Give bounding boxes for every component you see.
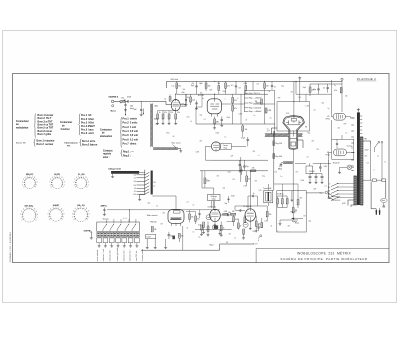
attenuator switch arm 4 xyxy=(125,224,129,231)
label V2 xyxy=(200,93,202,95)
wire V4 cath xyxy=(249,221,251,224)
wire v317 xyxy=(308,163,310,166)
ground R8 xyxy=(168,122,171,125)
connector pin label 3 xyxy=(109,249,112,261)
svg-text:Born.2 TH.T: Born.2 TH.T xyxy=(38,118,52,120)
svg-text:1M 1M 0,5: 1M 1M 0,5 xyxy=(277,194,284,196)
svg-text:Transfo HF: Transfo HF xyxy=(263,187,271,190)
wire v274 topbox xyxy=(274,90,276,102)
node bus 296 xyxy=(295,81,296,82)
title text line 2 xyxy=(280,256,367,261)
bottom bus verticals xyxy=(146,239,167,249)
wire R1 to C1 xyxy=(125,100,128,102)
ground in sweep box xyxy=(290,191,293,202)
label X1 xyxy=(263,187,271,190)
rail x274 xyxy=(274,90,276,134)
mid bus y124 xyxy=(196,123,275,125)
tube V1 electrodes xyxy=(173,100,179,111)
wiper contact b xyxy=(328,196,333,200)
svg-text:2kV: 2kV xyxy=(365,156,368,158)
pin list information xyxy=(82,141,98,147)
band switch bottom xyxy=(138,195,145,201)
svg-text:Bornier 3B: Bornier 3B xyxy=(16,142,26,144)
resistor R51 xyxy=(273,154,282,159)
wire funnel left xyxy=(272,128,278,134)
bottom bus y250 xyxy=(141,249,220,251)
capacitor C14 xyxy=(168,232,171,239)
wire top right h2 xyxy=(296,93,332,95)
svg-text:3,3k: 3,3k xyxy=(198,224,201,226)
svg-text:50k: 50k xyxy=(183,89,186,91)
svg-text:Réglage: Réglage xyxy=(211,196,217,198)
resistor R32 xyxy=(281,196,283,208)
svg-text:1k: 1k xyxy=(159,112,161,114)
wire V3 cath gnd xyxy=(214,222,217,227)
selector contact 220V xyxy=(331,194,354,198)
svg-text:47k: 47k xyxy=(244,216,247,218)
svg-text:1: 1 xyxy=(64,184,65,186)
label R28 xyxy=(258,223,261,225)
svg-text:Cout 1: Cout 1 xyxy=(146,236,151,239)
label EA50 xyxy=(278,166,282,170)
table tap text 1 xyxy=(249,93,260,95)
label selector 110 xyxy=(328,187,331,189)
ground R7 xyxy=(162,122,165,125)
svg-text:repérés: repérés xyxy=(103,153,112,156)
connector pin boxes xyxy=(97,238,139,245)
label V1 type xyxy=(182,106,186,108)
label connecteur du secteur xyxy=(60,121,72,131)
table tap line 3 xyxy=(245,102,249,104)
capacitor C17 xyxy=(236,209,246,211)
svg-text:3,4: 3,4 xyxy=(134,181,136,183)
svg-text:0: 0 xyxy=(64,182,65,184)
svg-text:1n: 1n xyxy=(281,176,283,178)
svg-text:vers C.R. dir.: vers C.R. dir. xyxy=(135,250,138,261)
svg-text:Rep.100k: Rep.100k xyxy=(276,156,283,158)
screen box around tube xyxy=(277,102,310,131)
label equipement xyxy=(16,142,26,144)
label 50ohm xyxy=(130,106,134,110)
connector pin label 7 xyxy=(135,250,138,261)
label 2nd bus xyxy=(181,92,185,94)
funnel neck rungs xyxy=(290,133,297,138)
attenuator switch arm 2 xyxy=(110,224,114,231)
node bus a xyxy=(214,81,215,82)
table tap text 4 xyxy=(249,108,262,110)
wire cluster top xyxy=(158,111,176,115)
svg-text:Born.2 secteur: Born.2 secteur xyxy=(37,143,54,146)
svg-text:8,4: 8,4 xyxy=(134,185,136,187)
label R46 xyxy=(197,219,200,221)
tube V2 electrodes xyxy=(210,99,219,117)
svg-text:25k: 25k xyxy=(253,151,256,153)
funnel tube envelope xyxy=(283,116,304,150)
wire v331 down xyxy=(331,120,333,139)
label R22 xyxy=(252,167,255,169)
node V4 anode xyxy=(250,170,251,171)
svg-text:EY51: EY51 xyxy=(326,119,330,121)
capacitor C27 xyxy=(198,210,200,218)
wire h208 right xyxy=(280,217,298,221)
attenuator screen box xyxy=(97,222,140,231)
svg-text:Pos.5 0,2 volt: Pos.5 0,2 volt xyxy=(123,134,139,137)
label R12 xyxy=(234,100,237,102)
wire bus drop 296 xyxy=(295,81,297,94)
wire tube window xyxy=(253,90,265,92)
transformer top ground xyxy=(357,108,360,112)
label R27 xyxy=(244,216,247,218)
band switch bus xyxy=(144,170,146,195)
label R11 xyxy=(216,122,219,124)
connector pin label 2 xyxy=(102,249,105,262)
svg-text:8: 8 xyxy=(61,208,62,210)
resistor R25 xyxy=(220,221,223,236)
svg-text:fonction: fonction xyxy=(60,128,70,131)
transformer right ticks xyxy=(360,116,362,134)
selector contact 130V xyxy=(331,190,354,194)
svg-text:16µF: 16µF xyxy=(199,83,203,85)
svg-text:1n: 1n xyxy=(202,98,204,100)
label R30 xyxy=(269,214,272,216)
svg-text:Born.3 ai THT: Born.3 ai THT xyxy=(38,121,54,123)
svg-text:8µF: 8µF xyxy=(191,85,194,87)
label R7 xyxy=(164,112,167,114)
wire osc v248 xyxy=(247,196,249,209)
svg-text:27k: 27k xyxy=(291,92,294,94)
connector pin label 6 xyxy=(129,249,132,261)
svg-text:Connecteur: Connecteur xyxy=(16,120,29,123)
wire bus drop 253 xyxy=(252,81,254,90)
resistor R5 xyxy=(264,81,266,94)
svg-text:V6: V6 xyxy=(305,127,307,129)
drawing frame border xyxy=(13,74,390,263)
svg-text:Rep. —400mV: Rep. —400mV xyxy=(249,103,262,105)
label C2 xyxy=(133,109,137,111)
box edge left osc xyxy=(240,157,242,182)
svg-text:wobulateur: wobulateur xyxy=(16,126,28,129)
wire mains pin2 xyxy=(379,208,381,210)
svg-text:SUITE: SUITE xyxy=(54,174,60,176)
svg-text:Contacteur: Contacteur xyxy=(100,128,112,131)
svg-text:Rég.470k: Rég.470k xyxy=(276,143,283,145)
transformer taps xyxy=(351,118,354,171)
svg-text:10k: 10k xyxy=(258,223,261,225)
svg-text:3: 3 xyxy=(21,211,22,213)
rotary dial S3 xyxy=(74,174,89,188)
svg-text:Born.7 grille: Born.7 grille xyxy=(38,134,52,136)
svg-text:Pos.1 entrée: Pos.1 entrée xyxy=(123,117,138,120)
svg-text:1 – 4: 1 – 4 xyxy=(123,218,127,220)
resistor R31 xyxy=(277,196,279,208)
cable tail arrow xyxy=(173,145,177,148)
label rung 7 xyxy=(133,194,136,196)
tube V8 hatched grid xyxy=(170,218,181,220)
svg-text:SCHÉMA N° 1223 — Éd. MÉTRIX: SCHÉMA N° 1223 — Éd. MÉTRIX xyxy=(9,231,12,262)
selector contact 245V xyxy=(331,197,354,201)
svg-text:THT: THT xyxy=(364,139,367,141)
svg-text:sortie wobulat.: sortie wobulat. xyxy=(96,249,99,261)
label wobulateur tube xyxy=(147,215,158,217)
wire right mid h184 xyxy=(274,183,298,185)
svg-text:50k: 50k xyxy=(232,211,235,213)
svg-text:0: 0 xyxy=(329,184,330,186)
label R10 xyxy=(192,100,195,102)
wiper rail a xyxy=(331,196,340,198)
label V2 type xyxy=(198,95,204,97)
svg-text:WOBULOSCOPE 231 MÉTRIX: WOBULOSCOPE 231 MÉTRIX xyxy=(297,250,351,255)
resistor R15 xyxy=(265,108,267,113)
svg-text:0,1: 0,1 xyxy=(307,157,309,159)
svg-text:Contacts: Contacts xyxy=(103,150,113,153)
svg-text:8µF: 8µF xyxy=(314,189,317,191)
label selector 0 xyxy=(329,184,330,186)
wire V3 top node xyxy=(202,182,214,188)
ground R9 xyxy=(174,122,177,125)
rotary dial S1 xyxy=(22,173,37,188)
wire V1 grid xyxy=(152,101,172,104)
resistor R14 xyxy=(261,99,263,104)
fuse F1 xyxy=(363,179,382,182)
svg-text:PL. 250: PL. 250 xyxy=(78,174,85,176)
svg-text:attenuat. 0,1 v: attenuat. 0,1 v xyxy=(129,249,132,261)
svg-text:0,4: 0,4 xyxy=(134,175,136,177)
label C18 xyxy=(241,138,245,140)
wire C1 to shielded cable xyxy=(130,100,152,102)
label R2 xyxy=(178,85,181,87)
svg-text:4: 4 xyxy=(52,177,53,179)
resistor R44 xyxy=(273,141,275,146)
heater rail a xyxy=(370,145,372,181)
table tap line 4 xyxy=(245,107,249,109)
ground lamp xyxy=(338,171,341,174)
ground C5 xyxy=(195,107,198,110)
wire V1 anode xyxy=(175,94,177,99)
capacitor C16 xyxy=(220,214,232,216)
transformer primary winding xyxy=(354,176,357,205)
svg-text:2k: 2k xyxy=(246,120,248,122)
svg-text:1: 1 xyxy=(50,184,51,186)
resistor R26 xyxy=(233,215,235,226)
label R15 xyxy=(268,110,272,112)
resistor R17 xyxy=(309,84,311,96)
ground V4 xyxy=(249,225,252,230)
svg-text:47: 47 xyxy=(134,191,136,193)
tiny labels top cluster xyxy=(187,97,204,100)
svg-text:attenuation: attenuation xyxy=(100,135,113,138)
pin list equipement xyxy=(37,140,55,147)
label C25 xyxy=(253,193,255,195)
label R25 xyxy=(223,228,225,230)
label chassis depart xyxy=(103,150,113,159)
capacitor C23 top xyxy=(271,81,273,90)
pilot lamp LP1 xyxy=(347,165,352,170)
svg-text:1k: 1k xyxy=(235,238,237,240)
wire right v306 xyxy=(305,94,307,101)
tube V7 electrodes xyxy=(337,150,343,155)
resistor R49 xyxy=(204,171,206,188)
label R4 xyxy=(227,85,230,87)
svg-text:Rep. visser: Rep. visser xyxy=(172,143,181,145)
svg-text:PLANCHE 2: PLANCHE 2 xyxy=(357,77,376,81)
svg-text:Pos.4 0,5 volt: Pos.4 0,5 volt xyxy=(123,130,139,133)
table tap line 2 xyxy=(245,97,249,99)
brace chassis xyxy=(121,150,123,157)
svg-text:25µ: 25µ xyxy=(246,166,249,168)
svg-text:Syncro: Syncro xyxy=(292,221,297,223)
label R5 xyxy=(266,85,269,87)
label rung 5 xyxy=(134,188,136,190)
label cable top xyxy=(154,106,158,108)
wire mains down a xyxy=(371,182,376,211)
wire sweep box top xyxy=(306,192,324,194)
wire h221 osc xyxy=(227,220,234,222)
funnel tube plates xyxy=(286,116,301,125)
grid bus y104 xyxy=(221,103,274,105)
label R21 xyxy=(181,236,184,238)
resistor R27 xyxy=(244,218,246,223)
svg-text:47k: 47k xyxy=(334,90,337,92)
wiper contact a xyxy=(328,193,333,197)
capacitor C11 filter xyxy=(315,174,318,182)
label gamme 4 input xyxy=(108,96,119,99)
label R8 xyxy=(170,112,173,114)
svg-text:680: 680 xyxy=(216,122,219,124)
label percage xyxy=(172,143,181,145)
svg-text:0,1µ: 0,1µ xyxy=(281,86,284,88)
svg-text:3: 3 xyxy=(73,210,74,212)
capacitor C21 xyxy=(319,163,322,172)
svg-text:EY51: EY51 xyxy=(326,154,330,156)
resistor R28 xyxy=(255,216,258,233)
selector contact 0V xyxy=(331,183,354,187)
resistor R48h xyxy=(231,213,236,215)
label 6v3 xyxy=(342,203,346,205)
svg-text:3: 3 xyxy=(74,179,75,181)
svg-text:de: de xyxy=(100,133,105,135)
wire tail to ground xyxy=(178,149,181,150)
svg-text:S2: S2 xyxy=(154,182,156,184)
capacitor C8 xyxy=(327,84,329,93)
svg-text:47k: 47k xyxy=(217,176,220,178)
resistor R22h xyxy=(251,170,256,172)
capacitor C2 xyxy=(140,107,142,114)
svg-text:+150: +150 xyxy=(181,92,185,94)
wire switch down xyxy=(373,148,375,152)
svg-text:2µ: 2µ xyxy=(328,108,330,110)
tube V1 envelope xyxy=(171,100,180,111)
wire input to R1 xyxy=(114,100,120,102)
label R34 xyxy=(295,210,298,212)
label C14 xyxy=(170,235,173,237)
svg-text:blind.: blind. xyxy=(130,108,134,110)
svg-text:50p: 50p xyxy=(225,203,228,205)
wire h163b xyxy=(313,162,331,164)
label C8 xyxy=(323,88,325,90)
correction box label xyxy=(220,144,232,150)
label C.R. xyxy=(286,113,290,115)
pin list attenuateur xyxy=(123,117,139,145)
band switch rung 2 xyxy=(137,175,150,178)
svg-text:25k: 25k xyxy=(338,128,341,130)
attenuator arm feed 5 xyxy=(135,219,137,223)
svg-text:Pos.4 25kHT: Pos.4 25kHT xyxy=(81,125,95,128)
HT top bus xyxy=(167,80,343,82)
svg-text:Pos.3 1 volt: Pos.3 1 volt xyxy=(123,126,137,129)
svg-text:2,2k: 2,2k xyxy=(192,100,195,102)
svg-text:C.R.: C.R. xyxy=(286,113,290,115)
svg-text:47k: 47k xyxy=(312,141,315,143)
wire osc v235 xyxy=(234,206,236,211)
cable tail horizontal xyxy=(153,148,178,150)
ground C12 xyxy=(321,181,324,184)
selector contact 110V xyxy=(331,187,354,191)
connector pin label 1 xyxy=(96,249,99,261)
label C3 xyxy=(191,85,194,87)
svg-text:110: 110 xyxy=(133,194,136,196)
label frequence xyxy=(211,196,217,200)
svg-text:av: av xyxy=(154,185,156,187)
resistor R43 xyxy=(237,219,239,230)
resistor R29 xyxy=(261,218,263,228)
resistor R2 xyxy=(176,81,178,94)
wire X1 down xyxy=(267,203,269,206)
svg-text:1: 1 xyxy=(22,184,23,186)
rail x264 xyxy=(264,94,266,124)
svg-text:50k: 50k xyxy=(322,103,325,105)
ground C10 xyxy=(309,181,312,184)
osc bottom wire xyxy=(195,229,232,231)
wire 299 down xyxy=(299,79,301,102)
tube V5 electrodes xyxy=(336,114,342,119)
capacitor C1 input xyxy=(127,100,130,102)
svg-text:4,7k: 4,7k xyxy=(259,190,262,192)
rail x196 mid xyxy=(195,107,197,118)
label masse xyxy=(111,110,117,112)
svg-text:1n: 1n xyxy=(253,193,255,195)
svg-text:ECC40: ECC40 xyxy=(198,95,204,97)
brace equipement xyxy=(34,139,36,146)
svg-text:Born.1 bornier: Born.1 bornier xyxy=(38,115,54,117)
band switch rung 1 xyxy=(137,172,150,175)
wiper rail b xyxy=(331,199,340,201)
svg-text:47k: 47k xyxy=(234,100,237,102)
svg-text:2: 2 xyxy=(87,187,88,189)
svg-text:2: 2 xyxy=(20,214,21,216)
capacitor C4 bus xyxy=(235,81,237,94)
label C16 xyxy=(228,212,231,214)
label sortie xyxy=(84,230,92,232)
mains pin 2 xyxy=(379,210,381,215)
capacitor C5 xyxy=(195,101,197,108)
rail x331 xyxy=(331,80,333,113)
label rung 3 xyxy=(134,181,136,183)
capacitor C26 xyxy=(228,196,230,203)
terminal V out xyxy=(258,235,262,239)
osc top risers xyxy=(214,171,216,182)
svg-text:50µ: 50µ xyxy=(313,89,316,91)
brace connector 1 xyxy=(34,114,36,138)
resistor R21 xyxy=(178,233,180,242)
svg-text:25k: 25k xyxy=(345,96,348,98)
svg-text:1: 1 xyxy=(63,216,64,218)
svg-text:40: 40 xyxy=(173,136,175,138)
svg-text:10k: 10k xyxy=(275,172,278,174)
label connecteur au wobulateur xyxy=(16,120,29,130)
rotary dial S2 xyxy=(49,174,64,188)
neon lamp N2 xyxy=(212,225,217,230)
svg-text:de: de xyxy=(60,126,65,128)
